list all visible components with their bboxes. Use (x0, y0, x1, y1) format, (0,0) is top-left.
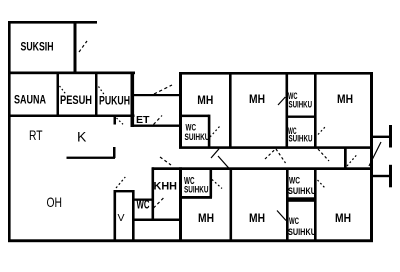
svg-text:MH: MH (197, 93, 213, 107)
svg-text:WC: WC (289, 216, 299, 227)
svg-text:OH: OH (47, 194, 63, 210)
svg-text:SUIHKU: SUIHKU (288, 227, 316, 238)
svg-text:MH: MH (249, 92, 265, 106)
svg-text:RT: RT (29, 128, 43, 143)
svg-text:SUIHKU: SUIHKU (289, 100, 313, 111)
svg-text:MH: MH (337, 92, 353, 106)
svg-text:SUKSIH: SUKSIH (21, 40, 54, 54)
svg-text:SUIHKU: SUIHKU (289, 134, 313, 145)
svg-text:V: V (118, 212, 125, 224)
svg-text:PESUH: PESUH (60, 93, 92, 107)
svg-text:MH: MH (335, 211, 351, 225)
svg-text:SAUNA: SAUNA (14, 93, 46, 107)
svg-text:ET: ET (136, 115, 150, 126)
svg-text:MH: MH (198, 211, 214, 225)
svg-text:MH: MH (249, 211, 265, 225)
svg-text:KHH: KHH (154, 181, 178, 193)
svg-text:WC: WC (137, 200, 150, 212)
svg-text:SUIHKU: SUIHKU (185, 132, 210, 143)
svg-text:K: K (77, 129, 87, 145)
svg-text:WC: WC (289, 176, 300, 187)
svg-text:SUIHKU: SUIHKU (288, 186, 316, 197)
svg-text:PUKUH: PUKUH (99, 94, 130, 108)
svg-text:SUIHKU: SUIHKU (184, 184, 209, 195)
